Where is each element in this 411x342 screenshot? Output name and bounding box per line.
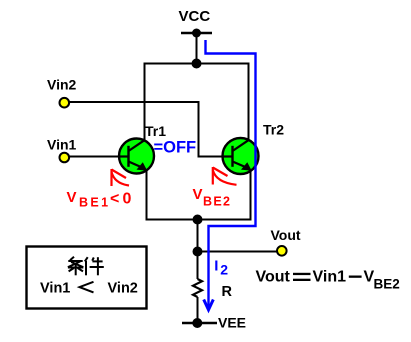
VCC bar dot xyxy=(192,29,201,38)
wire blue current path I2 xyxy=(206,40,256,309)
svg-text:Vin1: Vin1 xyxy=(47,137,77,153)
kanji 件 xyxy=(85,257,104,275)
svg-text:BE2: BE2 xyxy=(203,194,231,208)
node emitter junction xyxy=(193,215,203,225)
wire VCC to top rail xyxy=(196,33,198,64)
terminal Vin2 xyxy=(60,98,70,108)
svg-text:Vout: Vout xyxy=(271,227,301,243)
wire Tr2 emitter xyxy=(250,170,252,221)
wire to Vout terminal xyxy=(198,251,278,253)
terminal Vin1 xyxy=(60,153,70,163)
svg-text:2: 2 xyxy=(220,262,228,278)
svg-text:Vout: Vout xyxy=(256,269,291,286)
resistor R xyxy=(193,279,202,297)
svg-text:=OFF: =OFF xyxy=(154,139,197,157)
VCC power bar xyxy=(181,32,212,35)
svg-text:VEE: VEE xyxy=(218,315,246,331)
svg-text:Vin1: Vin1 xyxy=(40,281,70,297)
node Vout junction xyxy=(193,247,203,257)
wire emitter rail xyxy=(147,219,251,221)
condition box xyxy=(27,247,147,309)
svg-text:I: I xyxy=(214,258,218,275)
svg-text:Vin1: Vin1 xyxy=(313,269,347,286)
wire Vin1 to Tr1 base xyxy=(69,156,121,158)
svg-text:Vin2: Vin2 xyxy=(47,77,77,93)
wire Tr2 collector drop xyxy=(248,63,250,140)
svg-text:Tr2: Tr2 xyxy=(263,122,284,138)
wire Tr1 collector drop xyxy=(144,63,146,142)
svg-text:R: R xyxy=(222,284,233,300)
wire Vin2 to Tr2 base xyxy=(69,102,223,157)
svg-text:VCC: VCC xyxy=(179,8,211,25)
VEE power bar xyxy=(182,322,217,325)
VEE bar dot xyxy=(192,318,202,328)
red arrow VBE2 xyxy=(213,167,237,185)
blue arrowhead I2 xyxy=(204,300,214,310)
wire Tr1 emitter xyxy=(146,170,148,221)
node top junction xyxy=(192,59,202,69)
svg-text:BE1: BE1 xyxy=(79,195,111,209)
wire top rail xyxy=(145,63,249,65)
svg-text:Vin2: Vin2 xyxy=(108,281,138,297)
svg-text:BE2: BE2 xyxy=(374,277,400,292)
transistor Tr1 xyxy=(119,139,154,174)
svg-text:V: V xyxy=(193,186,203,203)
svg-text:V: V xyxy=(67,189,77,206)
terminal Vout xyxy=(277,246,287,256)
wire resistor to VEE xyxy=(197,297,199,323)
red arrow VBE1 xyxy=(112,169,130,186)
kanji 条 xyxy=(68,257,83,276)
wire tail down to resistor xyxy=(197,220,199,280)
svg-text:Tr1: Tr1 xyxy=(145,123,166,139)
svg-text:<0: <0 xyxy=(110,190,135,207)
transistor Tr2 xyxy=(223,138,259,174)
